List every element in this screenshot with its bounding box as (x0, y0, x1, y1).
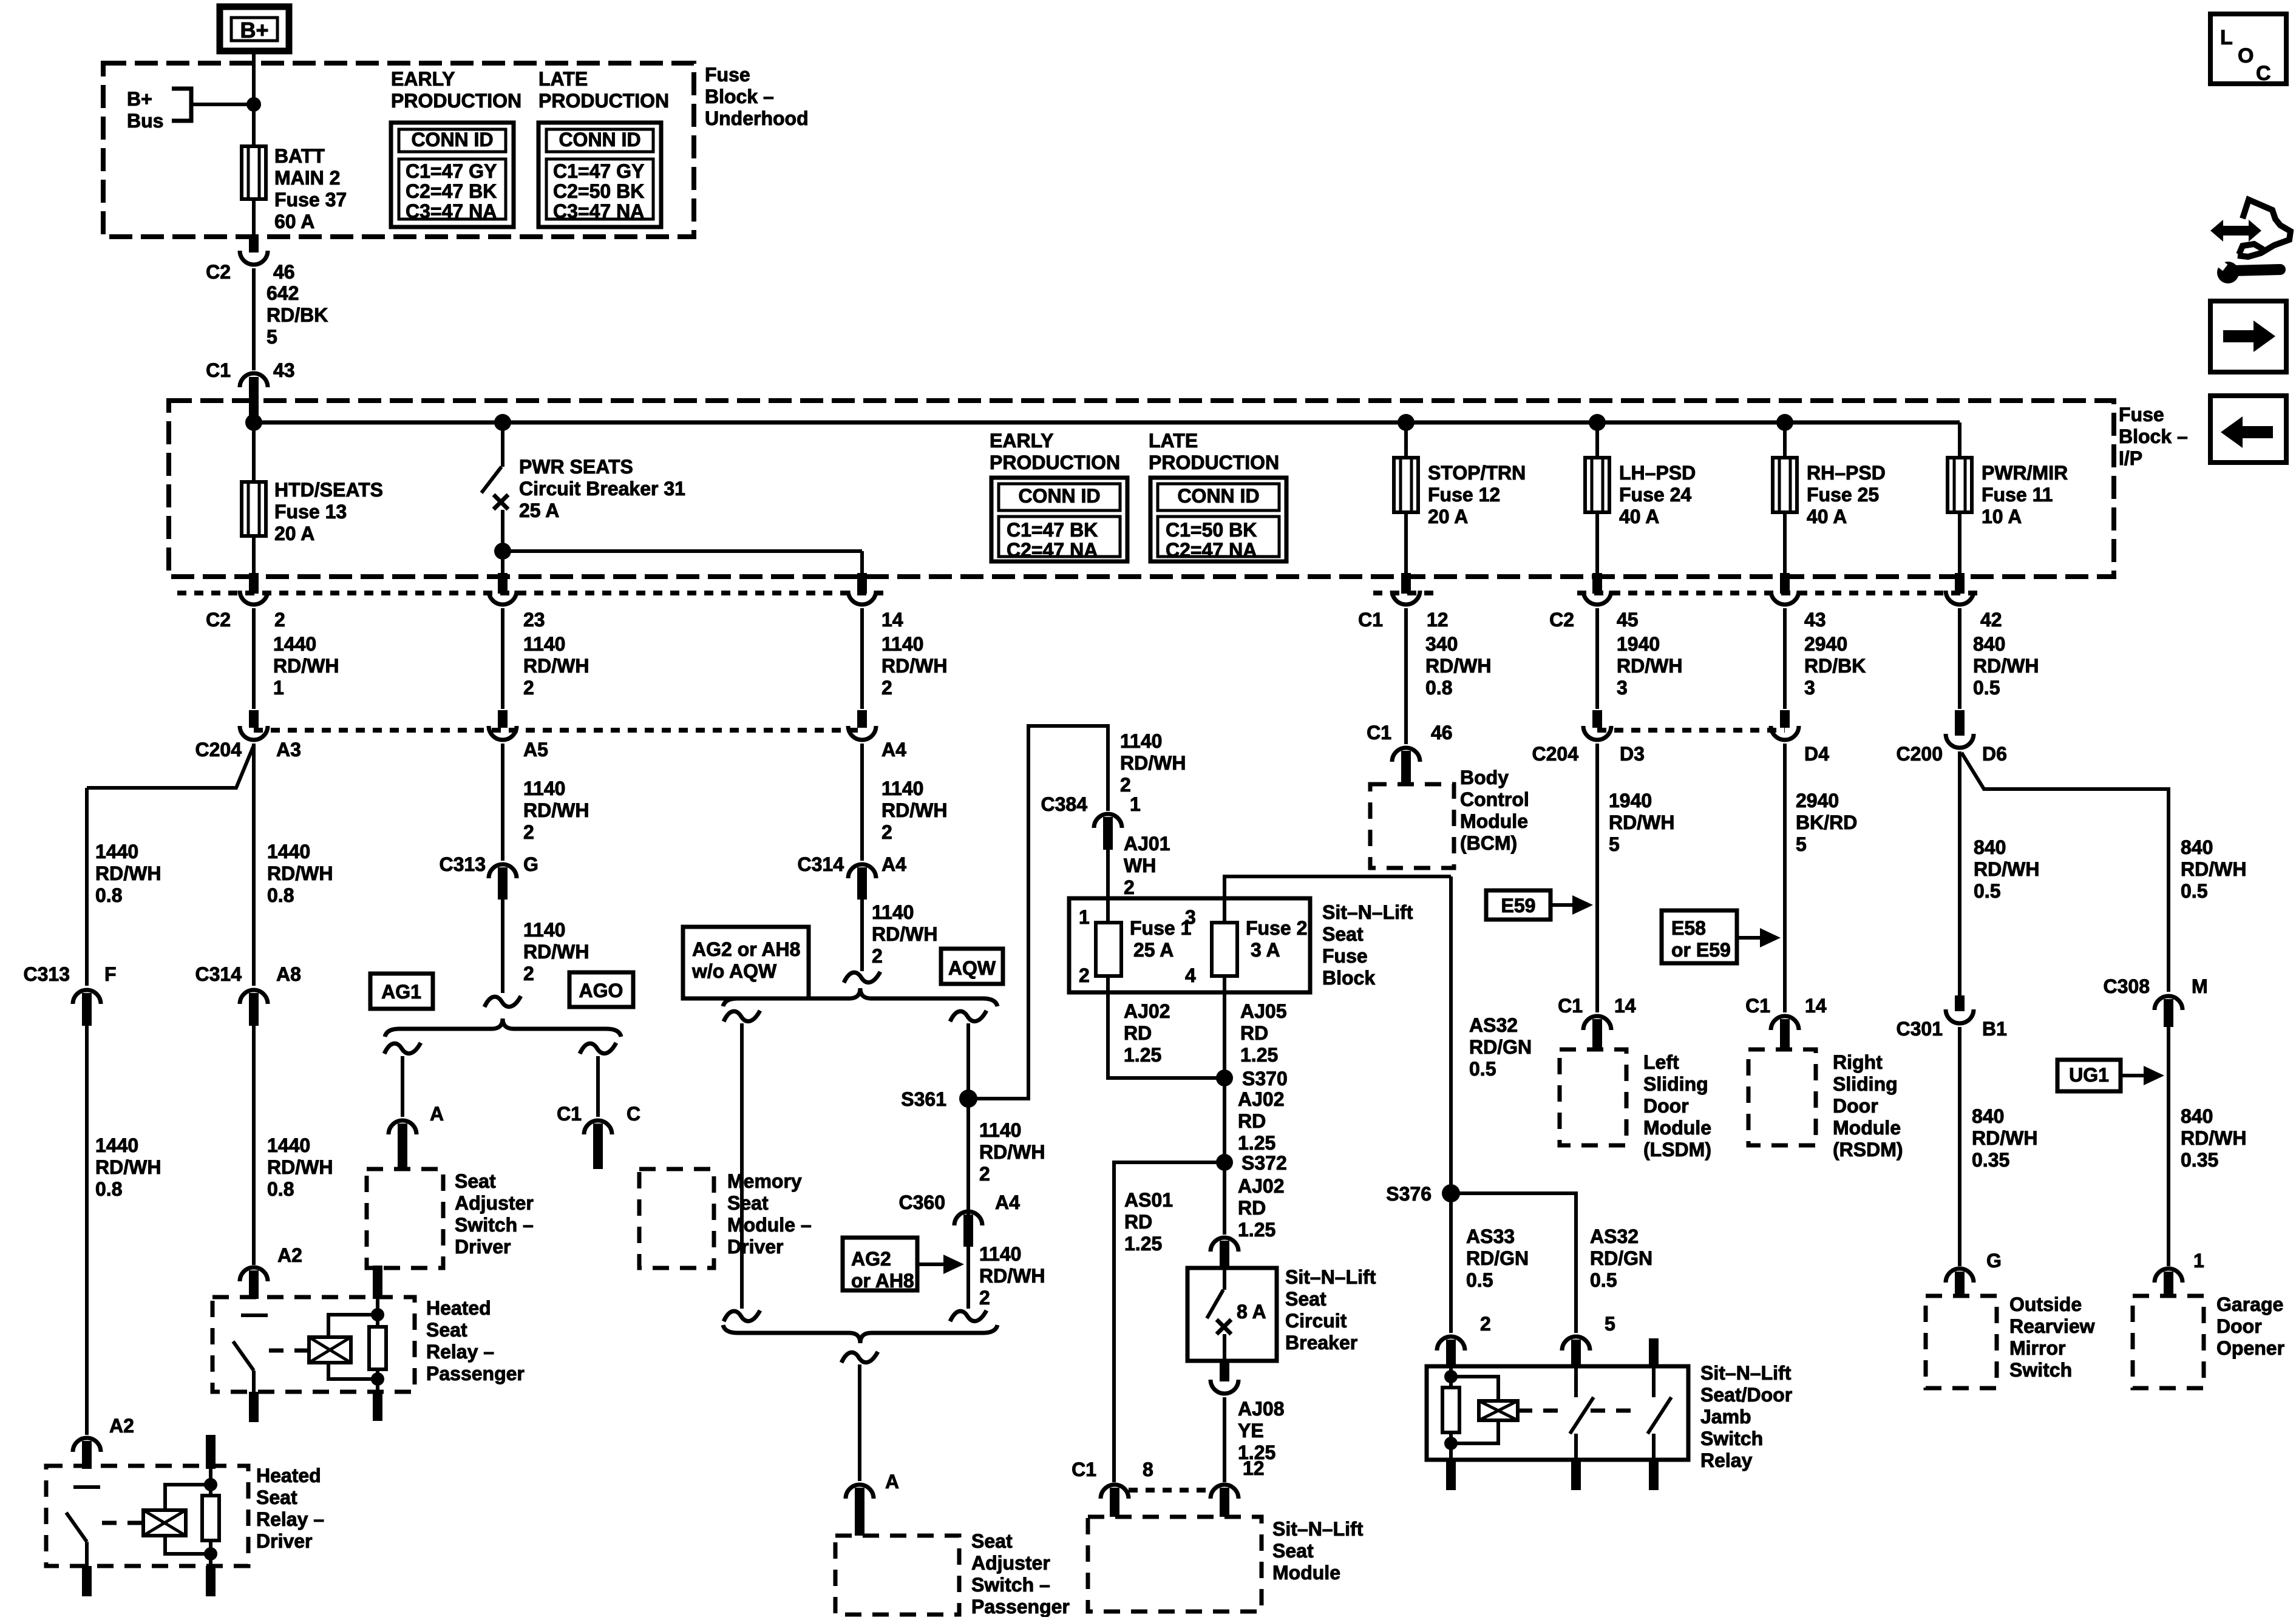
wire branch A seat adjuster driver (384, 1043, 421, 1054)
arrow UG1 to wire (2121, 1074, 2147, 1077)
svg-text:A8: A8 (276, 963, 301, 985)
svg-text:C204: C204 (1532, 743, 1579, 765)
connector pin A5 (498, 710, 508, 728)
svg-text:C: C (627, 1103, 640, 1125)
svg-text:RD/WH: RD/WH (2181, 858, 2246, 880)
heated seat relay passenger dashed box (212, 1297, 415, 1392)
svg-text:RD/GN: RD/GN (1590, 1247, 1652, 1269)
svg-text:Passenger: Passenger (426, 1363, 525, 1384)
svg-text:EARLY: EARLY (990, 430, 1054, 452)
fuse RH-PSD Fuse 25 40A (1783, 422, 1787, 458)
svg-text:Garage: Garage (2216, 1293, 2283, 1315)
svg-text:PRODUCTION: PRODUCTION (990, 452, 1120, 473)
svg-text:HTD/SEATS: HTD/SEATS (274, 479, 383, 501)
wire AS33 RD/GN 0.5 (1449, 1193, 1453, 1333)
svg-text:25 A: 25 A (519, 500, 559, 521)
svg-text:Memory: Memory (727, 1170, 802, 1192)
svg-text:5: 5 (267, 326, 277, 348)
svg-text:Fuse 12: Fuse 12 (1428, 484, 1500, 506)
svg-text:Relay –: Relay – (426, 1341, 494, 1363)
relay driver switch (73, 1485, 100, 1489)
svg-text:5: 5 (1605, 1313, 1615, 1335)
wire A3 split diagonal (87, 745, 254, 788)
relay linkage dashes (1518, 1409, 1563, 1413)
svg-text:E58: E58 (1671, 917, 1706, 939)
svg-text:0.8: 0.8 (95, 1178, 122, 1200)
wire AJ08 YE 1.25 (1223, 1397, 1226, 1482)
svg-text:RD/WH: RD/WH (95, 1156, 161, 1178)
svg-text:AJ02: AJ02 (1124, 1000, 1170, 1022)
svg-text:w/o AQW: w/o AQW (691, 960, 777, 982)
svg-text:25 A: 25 A (1133, 939, 1173, 961)
svg-text:Driver: Driver (256, 1530, 313, 1552)
svg-text:5: 5 (1796, 833, 1807, 855)
svg-text:RD/WH: RD/WH (2181, 1127, 2246, 1149)
wire AS32 RD/GN 0.5 from fuse block (1449, 876, 1453, 1193)
svg-text:AS33: AS33 (1466, 1225, 1515, 1247)
svg-text:AG1: AG1 (381, 981, 421, 1003)
svg-text:14: 14 (1614, 995, 1636, 1017)
node B+ bus junction dot (246, 97, 261, 112)
power feed B+ label box (220, 7, 289, 51)
connector breaker output (1220, 1361, 1229, 1381)
wire 1440 RD/WH 0.8 left branch (85, 788, 89, 986)
wire A4 down 1140 RD/WH 2 (860, 744, 864, 861)
svg-text:D4: D4 (1804, 743, 1829, 765)
svg-text:1.25: 1.25 (1238, 1219, 1275, 1241)
svg-text:BATT: BATT (274, 145, 325, 167)
svg-text:LH–PSD: LH–PSD (1619, 462, 1696, 484)
svg-text:or E59: or E59 (1671, 939, 1731, 961)
garage door opener dashed box (2133, 1296, 2204, 1388)
sit-n-lift seat fuse block box (1069, 898, 1310, 992)
svg-text:RD/WH: RD/WH (881, 799, 947, 821)
sit-n-lift seat module dashed box (1088, 1517, 1262, 1612)
svg-text:0.8: 0.8 (267, 884, 294, 906)
svg-text:Sliding: Sliding (1643, 1073, 1708, 1095)
heated seat relay driver dashed box (46, 1466, 248, 1566)
svg-text:Switch –: Switch – (455, 1214, 534, 1236)
svg-text:S361: S361 (901, 1088, 946, 1110)
svg-text:1: 1 (1079, 906, 1090, 928)
svg-text:Sit–N–Lift: Sit–N–Lift (1322, 901, 1413, 923)
svg-text:1440: 1440 (273, 633, 316, 655)
svg-text:STOP/TRN: STOP/TRN (1428, 462, 1526, 484)
wire 1440 RD/WH 0.8 to passenger relay (252, 1026, 256, 1265)
svg-text:840: 840 (2181, 836, 2213, 858)
wire IP bus bar (254, 421, 1960, 425)
svg-text:Fuse 37: Fuse 37 (274, 189, 347, 211)
svg-text:Heated: Heated (426, 1297, 491, 1319)
svg-text:C384: C384 (1041, 793, 1088, 815)
fuse block IP dashed outline (169, 401, 2114, 577)
svg-text:Switch: Switch (1700, 1428, 1763, 1449)
sit-n-lift seat circuit breaker box (1187, 1268, 1277, 1361)
svg-text:Bus: Bus (127, 110, 163, 132)
svg-text:10 A: 10 A (1982, 506, 2022, 527)
svg-text:AG2: AG2 (851, 1248, 891, 1270)
body control module dashed box (1370, 784, 1454, 868)
svg-text:60 A: 60 A (274, 211, 314, 232)
svg-text:1: 1 (273, 677, 284, 699)
svg-text:B+: B+ (240, 18, 268, 42)
net AG1 option box (370, 974, 433, 1009)
sit-n-lift seat door jamb switch relay box (1427, 1366, 1688, 1460)
node bus at fuse 25 (1776, 414, 1793, 431)
svg-text:RD/WH: RD/WH (273, 655, 339, 677)
svg-text:1140: 1140 (523, 919, 565, 941)
svg-text:AS32: AS32 (1469, 1014, 1518, 1036)
svg-text:Seat: Seat (1272, 1540, 1314, 1562)
connector pin 42 (1955, 573, 1965, 594)
svg-text:1: 1 (1130, 793, 1141, 815)
wire fuse37 to connector C2 (252, 199, 256, 238)
svg-text:Driver: Driver (727, 1236, 784, 1258)
svg-text:AJ05: AJ05 (1240, 1000, 1287, 1022)
svg-text:2: 2 (881, 677, 892, 699)
svg-text:D3: D3 (1620, 743, 1645, 765)
fuse block underhood dashed outline (103, 63, 694, 237)
connector C2 pin 45 (1592, 573, 1602, 594)
wire AJ02 RD 1.25 fuse1 out (1108, 976, 1224, 1078)
svg-text:C360: C360 (899, 1191, 946, 1213)
svg-text:RD/WH: RD/WH (1972, 1127, 2037, 1149)
net AQW option box (941, 949, 1003, 984)
wire AJ01 WH 2 (1106, 850, 1110, 923)
svg-text:840: 840 (2181, 1105, 2213, 1127)
svg-text:Seat: Seat (256, 1486, 297, 1508)
net AG2 or AH8 pointer box (843, 1238, 917, 1290)
node bus at fuse 12 (1398, 414, 1415, 431)
svg-text:CONN ID: CONN ID (411, 129, 493, 151)
svg-text:2940: 2940 (1804, 633, 1847, 655)
svg-text:C308: C308 (2104, 975, 2150, 997)
node S376 (1442, 1184, 1460, 1202)
svg-text:Fuse 11: Fuse 11 (1982, 484, 2053, 506)
svg-text:Relay –: Relay – (256, 1508, 324, 1530)
svg-text:Adjuster: Adjuster (455, 1192, 534, 1214)
svg-text:Right: Right (1833, 1051, 1883, 1073)
svg-text:UG1: UG1 (2069, 1064, 2109, 1086)
options brace AQW (723, 988, 997, 1006)
svg-text:Jamb: Jamb (1700, 1406, 1751, 1428)
svg-text:C2=47 NA: C2=47 NA (1166, 539, 1257, 561)
wire 840 RD/WH 0.35 left (1958, 1027, 1961, 1266)
svg-text:B1: B1 (1982, 1018, 2007, 1040)
svg-text:1.25: 1.25 (1238, 1132, 1275, 1154)
svg-text:RD/WH: RD/WH (979, 1265, 1045, 1287)
svg-text:Block –: Block – (705, 86, 774, 107)
svg-text:46: 46 (273, 261, 295, 283)
svg-text:A2: A2 (277, 1244, 302, 1266)
svg-text:AS32: AS32 (1590, 1225, 1639, 1247)
svg-text:C1: C1 (1072, 1459, 1096, 1480)
wire 642 RD/BK 5 (252, 268, 256, 370)
svg-text:Rearview: Rearview (2009, 1315, 2095, 1337)
wire A5 down 1140 RD/WH 2 (501, 744, 504, 861)
wire AJ05 RD 1.25 fuse2 out (1223, 976, 1226, 1162)
wire label AJ02 RD 1.25 lower (1223, 1162, 1226, 1235)
svg-text:A5: A5 (523, 739, 548, 761)
svg-text:1440: 1440 (95, 1134, 138, 1156)
svg-text:Switch –: Switch – (971, 1574, 1050, 1596)
svg-text:0.5: 0.5 (1973, 677, 2000, 699)
svg-text:2: 2 (523, 677, 534, 699)
svg-text:AS01: AS01 (1124, 1189, 1173, 1211)
svg-text:C204: C204 (195, 739, 242, 761)
svg-text:RD/WH: RD/WH (1120, 752, 1186, 774)
relay passenger switch (241, 1313, 268, 1317)
circuit breaker 8A element (1223, 1270, 1226, 1290)
svg-text:D6: D6 (1982, 743, 2007, 765)
node bus at HTD/SEATS (245, 414, 262, 431)
svg-text:1140: 1140 (1120, 730, 1162, 752)
options brace merge bottom (723, 1325, 997, 1343)
svg-text:2: 2 (1480, 1313, 1491, 1335)
connector C2 pin 2 (249, 573, 259, 594)
svg-text:G: G (1986, 1250, 2002, 1272)
svg-text:Outside: Outside (2009, 1293, 2082, 1315)
svg-text:RD: RD (1238, 1197, 1266, 1219)
wire end hook col B (484, 996, 521, 1007)
svg-text:40 A: 40 A (1619, 506, 1659, 527)
svg-text:C314: C314 (798, 853, 844, 875)
svg-text:C3=47 NA: C3=47 NA (553, 200, 644, 222)
outside rearview mirror switch dashed box (1926, 1296, 1997, 1388)
svg-text:RD: RD (1124, 1022, 1152, 1044)
svg-text:14: 14 (1805, 995, 1827, 1017)
svg-text:Block –: Block – (2119, 425, 2188, 447)
svg-text:A: A (885, 1471, 899, 1493)
connector C2 pin 46 underhood (249, 237, 259, 252)
svg-text:C2=47 NA: C2=47 NA (1007, 539, 1098, 561)
svg-text:A4: A4 (995, 1191, 1020, 1213)
svg-text:1140: 1140 (523, 633, 565, 655)
svg-text:Door: Door (2216, 1315, 2262, 1337)
connector C1 pin 12 (1401, 573, 1411, 594)
svg-text:3 A: 3 A (1251, 939, 1280, 961)
svg-text:RD/WH: RD/WH (523, 799, 589, 821)
svg-text:RD/WH: RD/WH (1617, 655, 1682, 677)
svg-text:RD: RD (1240, 1022, 1268, 1044)
svg-text:C2: C2 (1549, 609, 1574, 631)
relay coil resistor network (1449, 1368, 1453, 1388)
svg-text:S372: S372 (1241, 1152, 1287, 1174)
connector C200 pin D6 (1955, 710, 1965, 736)
svg-text:4: 4 (1185, 964, 1196, 986)
connector boundary line C2 left (177, 591, 883, 595)
svg-text:LATE: LATE (538, 68, 588, 90)
wire bus to fuse 13 (252, 422, 256, 482)
net UG1 pointer box (2057, 1060, 2121, 1091)
fuse STOP/TRN Fuse 12 20A (1404, 422, 1408, 458)
svg-text:0.5: 0.5 (2181, 880, 2207, 902)
svg-text:C1: C1 (206, 359, 231, 381)
svg-text:L: L (2220, 26, 2233, 49)
svg-text:1.25: 1.25 (1124, 1044, 1161, 1066)
wire 840 RD/WH 0.5 col H (1958, 608, 1961, 709)
svg-text:1140: 1140 (979, 1243, 1021, 1265)
svg-text:PRODUCTION: PRODUCTION (1149, 452, 1279, 473)
node S370 (1216, 1069, 1233, 1086)
node S372 (1216, 1154, 1233, 1171)
svg-text:0.5: 0.5 (1590, 1269, 1617, 1291)
svg-text:45: 45 (1617, 609, 1639, 631)
svg-text:RD/WH: RD/WH (1974, 858, 2039, 880)
relay driver coil and resistor (206, 1435, 216, 1469)
svg-text:Left: Left (1643, 1051, 1679, 1073)
svg-text:1440: 1440 (95, 841, 138, 863)
svg-text:C1: C1 (1358, 609, 1383, 631)
svg-text:Circuit Breaker 31: Circuit Breaker 31 (519, 478, 685, 500)
svg-text:RD/WH: RD/WH (267, 863, 333, 884)
svg-text:(LSDM): (LSDM) (1643, 1139, 1711, 1161)
wire A3 down 1440 RD/WH 0.8 (252, 744, 256, 986)
connector boundary line C1 right (1373, 591, 1440, 595)
wire B+ to bus junction (252, 51, 256, 146)
svg-text:Sit–N–Lift: Sit–N–Lift (1285, 1266, 1376, 1288)
svg-text:Fuse 13: Fuse 13 (274, 501, 347, 523)
svg-text:C2=50 BK: C2=50 BK (553, 180, 644, 202)
wire 340 RD/WH 0.8 (1404, 608, 1408, 744)
net E59 pointer box (1486, 890, 1550, 920)
wire AS32 RD/GN 0.5 branch (1451, 1193, 1576, 1333)
svg-text:RD/WH: RD/WH (267, 1156, 333, 1178)
svg-text:1.25: 1.25 (1124, 1233, 1162, 1255)
svg-text:642: 642 (267, 282, 299, 304)
svg-text:Seat: Seat (971, 1530, 1013, 1552)
svg-text:Seat: Seat (1285, 1288, 1326, 1310)
svg-text:0.35: 0.35 (1972, 1149, 2009, 1171)
svg-text:C3=47 NA: C3=47 NA (406, 200, 497, 222)
net AG2 or AH8 w/o AQW option box (683, 927, 809, 998)
svg-text:PRODUCTION: PRODUCTION (391, 90, 521, 112)
svg-text:Switch: Switch (2009, 1359, 2072, 1381)
svg-text:C2=47 BK: C2=47 BK (406, 180, 497, 202)
wire 1940 RD/WH 3 (1595, 608, 1599, 709)
relay passenger coil and resistor (373, 1266, 382, 1299)
svg-text:Module: Module (1833, 1117, 1901, 1139)
svg-text:Fuse 25: Fuse 25 (1807, 484, 1879, 506)
connector pin 43 (1780, 573, 1790, 594)
svg-text:AG2 or AH8: AG2 or AH8 (692, 938, 800, 960)
svg-text:RD/WH: RD/WH (1425, 655, 1491, 677)
svg-text:S376: S376 (1386, 1183, 1432, 1205)
svg-text:Body: Body (1460, 767, 1509, 788)
connector pin A4 (857, 710, 867, 728)
connector pin 14 (857, 573, 867, 594)
wire 1140 RD/WH 2 to brace 2 (860, 900, 864, 971)
svg-text:2: 2 (979, 1287, 990, 1309)
svg-text:RD/GN: RD/GN (1466, 1247, 1529, 1269)
svg-text:RD: RD (1238, 1110, 1266, 1132)
node bus at fuse 24 (1589, 414, 1606, 431)
svg-text:1940: 1940 (1609, 790, 1652, 812)
svg-text:3: 3 (1185, 906, 1196, 928)
svg-text:E59: E59 (1501, 895, 1536, 917)
svg-text:AGO: AGO (579, 980, 623, 1001)
svg-text:(RSDM): (RSDM) (1833, 1139, 1903, 1161)
svg-text:3: 3 (1804, 677, 1815, 699)
svg-text:840: 840 (1974, 836, 2006, 858)
svg-text:Fuse: Fuse (1322, 945, 1368, 967)
svg-text:2: 2 (872, 945, 883, 967)
svg-text:1: 1 (2193, 1250, 2204, 1272)
svg-text:0.8: 0.8 (267, 1178, 294, 1200)
svg-text:M: M (2192, 975, 2208, 997)
arrow AG2 to wire (917, 1262, 947, 1266)
fuse LH-PSD Fuse 24 40A (1595, 422, 1599, 458)
wire 1140 RD/WH 2 col C (860, 608, 864, 709)
wire breaker branch to pin 14 (503, 549, 862, 553)
svg-text:CONN ID: CONN ID (559, 129, 640, 151)
svg-text:RD/WH: RD/WH (523, 941, 589, 963)
svg-text:AJ02: AJ02 (1238, 1088, 1285, 1110)
svg-text:(BCM): (BCM) (1460, 832, 1517, 854)
svg-text:Seat: Seat (426, 1319, 467, 1341)
svg-text:B+: B+ (127, 88, 152, 110)
svg-text:or AH8: or AH8 (851, 1270, 914, 1292)
svg-text:MAIN 2: MAIN 2 (274, 167, 340, 189)
svg-text:Passenger: Passenger (971, 1596, 1070, 1617)
connector boundary line C204 (254, 728, 862, 733)
LOC legend box (2210, 14, 2286, 84)
svg-text:CONN ID: CONN ID (1177, 485, 1259, 507)
svg-text:Breaker: Breaker (1285, 1332, 1357, 1354)
svg-text:RD/WH: RD/WH (95, 863, 161, 884)
svg-text:23: 23 (523, 609, 545, 631)
svg-text:C2: C2 (206, 609, 231, 631)
svg-text:C1=50 BK: C1=50 BK (1166, 519, 1257, 541)
vehicle door adjust icon (2210, 200, 2291, 283)
connector boundary sit-n-lift module (1129, 1488, 1212, 1493)
svg-text:840: 840 (1972, 1105, 2004, 1127)
svg-text:A3: A3 (276, 739, 301, 761)
svg-text:46: 46 (1431, 722, 1453, 744)
net AGO option box (569, 972, 633, 1007)
wire D4 down 2940 BK/RD 5 (1783, 744, 1787, 1012)
svg-text:AJ02: AJ02 (1238, 1175, 1285, 1197)
svg-text:LATE: LATE (1149, 430, 1198, 452)
svg-text:1940: 1940 (1617, 633, 1660, 655)
svg-text:1140: 1140 (872, 901, 914, 923)
svg-text:RD/WH: RD/WH (872, 923, 937, 945)
arrow E58 to wire (1737, 936, 1764, 940)
wire S361 riser to C384 (968, 726, 1108, 1099)
svg-text:1140: 1140 (881, 633, 923, 655)
svg-text:Seat/Door: Seat/Door (1700, 1384, 1792, 1406)
svg-text:20 A: 20 A (1428, 506, 1468, 527)
svg-text:Module: Module (1272, 1562, 1340, 1584)
svg-text:BK/RD: BK/RD (1796, 812, 1857, 833)
svg-text:RD/WH: RD/WH (881, 655, 947, 677)
svg-text:Mirror: Mirror (2009, 1337, 2065, 1359)
svg-text:2: 2 (1079, 964, 1090, 986)
svg-text:C200: C200 (1897, 743, 1943, 765)
svg-text:Circuit: Circuit (1285, 1310, 1347, 1332)
wire fuse13 to connector (252, 536, 256, 573)
svg-text:RD/WH: RD/WH (979, 1141, 1045, 1163)
wire 1140 RD/WH 2 to brace (501, 900, 504, 993)
svg-text:C301: C301 (1897, 1018, 1943, 1040)
svg-text:Underhood: Underhood (705, 107, 809, 129)
svg-text:2: 2 (881, 821, 892, 843)
svg-text:0.5: 0.5 (1974, 880, 2000, 902)
wire branch w/o AQW long (724, 1011, 760, 1022)
wire branch AQW (950, 1011, 987, 1022)
svg-text:RD/BK: RD/BK (1804, 655, 1866, 677)
svg-text:Control: Control (1460, 788, 1529, 810)
